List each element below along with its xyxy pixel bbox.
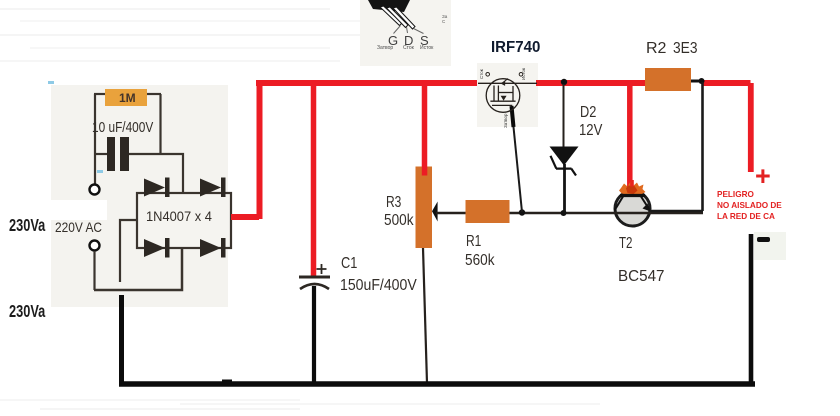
wire D2 vertical — [563, 84, 565, 150]
label 1M — [119, 91, 136, 105]
label S — [420, 33, 429, 48]
right drop minus terminal — [749, 234, 754, 384]
label 220V AC — [55, 219, 102, 235]
label R3 — [386, 194, 401, 212]
rail overlap blob — [222, 380, 232, 387]
wire R3 bottom to rail — [423, 248, 427, 383]
MOSFET image inner wire — [478, 82, 537, 84]
input section background box — [51, 85, 228, 307]
red drop right to plus terminal — [748, 83, 754, 172]
red top rail right segment — [703, 80, 751, 86]
label C1 — [341, 255, 357, 273]
transistor T2 body — [615, 191, 650, 226]
node D2 bottom junction — [561, 210, 567, 216]
MOSFET channel bar — [497, 86, 499, 101]
MOSFET U1 circle — [486, 79, 520, 113]
T2 emitter diagonal with arrow — [641, 197, 649, 210]
label 10 uF/400V — [92, 119, 153, 136]
label R1 — [466, 233, 481, 251]
label Istok rotated at mosfet — [521, 68, 526, 80]
bottom rail hand drawn — [119, 381, 755, 387]
mid horizontal wire R3 to T2 corner — [436, 212, 703, 214]
label 12V — [579, 122, 602, 140]
diode bridge D top-left — [144, 178, 170, 198]
wire 1M left horizontal — [94, 93, 106, 95]
diode bridge D bottom-left — [144, 238, 170, 258]
red drop to R3 — [422, 85, 428, 170]
wire lower terminal down — [93, 251, 95, 290]
wire capacitor right to bridge top — [129, 154, 183, 193]
wire bottom horizontal to bridge bottom — [94, 248, 182, 290]
MOSFET lower bar — [492, 104, 512, 106]
wire right vertical from 1M down to cap junction — [159, 94, 161, 154]
left drop hand drawn — [119, 295, 124, 384]
label IRF740 — [491, 39, 540, 57]
MOSFET mid horizontal — [498, 92, 513, 94]
red top rail left segment — [256, 80, 477, 86]
bridge rectangle — [137, 193, 231, 248]
1M resistor body — [105, 89, 147, 106]
label plus terminal — [755, 161, 771, 192]
label Istok — [420, 45, 433, 51]
capacitor 10uF plates — [107, 137, 115, 171]
C1 capacitor plates — [299, 276, 330, 279]
terminal upper — [90, 185, 100, 195]
wire left vertical from 1M to upper terminal — [94, 94, 96, 184]
wire right vertical collector drop — [651, 82, 703, 211]
resistor R2 body — [645, 68, 691, 91]
red top rail middle segment — [536, 80, 645, 86]
T2 base bar — [620, 194, 645, 197]
label R2 3E3 — [646, 40, 666, 58]
node D2 top junction on rail — [561, 79, 567, 85]
wire bridge left tap — [120, 220, 137, 282]
label T2 — [619, 235, 632, 253]
red drop to T2 — [627, 85, 633, 188]
MOSFET gate bar — [493, 86, 495, 101]
resistor R1 body — [466, 200, 510, 223]
resistor R3 body — [416, 167, 433, 249]
warning text PELIGRO — [717, 190, 782, 222]
package leads — [380, 6, 415, 29]
zener diode D2 — [550, 147, 579, 166]
C1 plus sign — [317, 264, 327, 274]
MOSFET down arrow — [501, 96, 507, 101]
wire MOSFET gate diagonal — [512, 107, 523, 212]
red drop to C1 — [311, 85, 317, 277]
label 150uF/400V — [340, 277, 417, 295]
R3 wiper arrow — [432, 202, 438, 222]
diode bridge D bottom-right — [200, 238, 226, 258]
wire 1M right horizontal — [146, 93, 161, 95]
MOSFET source bar — [490, 100, 515, 102]
wire R2 right stub — [691, 80, 704, 83]
label Stok — [403, 45, 414, 51]
wire red overlap on R3 top — [422, 167, 428, 176]
lead pointer lines — [394, 26, 424, 34]
diode bridge D top-right — [200, 178, 226, 198]
top transistor pinout image background — [360, 0, 451, 66]
wire capacitor left — [94, 153, 107, 155]
label D2 — [580, 104, 596, 122]
red wire bridge output to riser — [231, 214, 259, 220]
faint scan streaks — [0, 8, 330, 10]
white patch left of 220V AC — [28, 200, 107, 220]
MOSFET symbol image background — [477, 63, 538, 127]
T2 collector diagonal — [615, 197, 624, 211]
red riser from bridge to top rail — [257, 83, 263, 219]
terminal lower — [90, 241, 100, 251]
label minus terminal — [757, 237, 770, 242]
MOSFET terminal dots — [486, 73, 490, 77]
label 560k — [465, 252, 494, 270]
MOSFET body diode arrow on top line — [502, 79, 508, 84]
TO-220 package body — [368, 0, 410, 12]
label 500k — [384, 212, 413, 230]
label Stok rotated at mosfet — [479, 69, 484, 79]
label 230Va upper — [9, 215, 45, 236]
label G — [388, 33, 398, 48]
node R2 right junction — [699, 78, 705, 84]
starburst burn mark on T2 — [619, 182, 646, 196]
node gate junction — [519, 209, 525, 215]
tiny note text top right — [442, 14, 447, 24]
grey patch behind minus terminal — [754, 232, 786, 260]
blue dash marks — [48, 81, 54, 84]
label Zatvor — [377, 45, 393, 51]
wire C1 to bottom rail (hand drawn) — [312, 286, 316, 384]
label BC547 — [618, 268, 664, 286]
label D — [404, 33, 413, 48]
label Zatvor rotated at mosfet gate — [503, 113, 508, 128]
MOSFET right bar — [512, 86, 514, 101]
wire through T2 — [614, 212, 651, 214]
label 1N4007 x 4 — [146, 208, 212, 224]
label 230Va lower — [9, 301, 45, 322]
